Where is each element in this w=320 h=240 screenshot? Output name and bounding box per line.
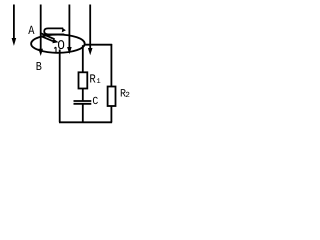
field arrowhead 2: [38, 49, 43, 56]
label O (coil centre node): [59, 41, 64, 49]
field arrowhead 3: [67, 47, 72, 54]
wire R1 to capacitor: [82, 89, 84, 101]
svg-text:1: 1: [96, 78, 100, 86]
wire from coil right tip to R2 branch (horizontal): [84, 44, 112, 46]
svg-text:A: A: [28, 24, 35, 38]
wire coil tap down to R1: [82, 45, 84, 72]
field arrowhead 1: [12, 38, 17, 46]
svg-text:R: R: [89, 73, 96, 87]
wire capacitor to bottom rail: [82, 104, 84, 122]
resistor R2 body: [108, 87, 116, 107]
wire from node O down to bottom rail: [59, 50, 61, 123]
capacitor C top plate: [74, 100, 92, 102]
field arrow line 4: [89, 5, 91, 49]
resistor R1 body: [79, 72, 88, 88]
wire down to R2: [110, 44, 112, 87]
svg-text:2: 2: [125, 91, 130, 100]
rod arrow shaft from A-line toward centre O (upper line): [41, 33, 55, 39]
svg-text:C: C: [92, 96, 98, 108]
loop arrowhead: [62, 28, 66, 33]
capacitor C bottom plate: [74, 103, 92, 105]
coil loop (ellipse, slightly tilted): [31, 35, 85, 53]
field arrow line 3: [68, 5, 70, 48]
bottom rail wire: [59, 121, 112, 123]
wire R2 to bottom rail: [110, 106, 112, 122]
rod arrow shaft (lower line): [41, 36, 53, 41]
rod arrowhead pointing at O: [52, 39, 58, 44]
field arrow line 2: [40, 5, 42, 50]
field arrowhead 4: [88, 48, 93, 55]
current-direction loop arrow (flat oval): [44, 28, 64, 34]
label 1 (dial mark): [54, 47, 58, 53]
field arrow line 1 (leftmost B-field line): [13, 5, 15, 40]
svg-text:B: B: [36, 60, 42, 74]
